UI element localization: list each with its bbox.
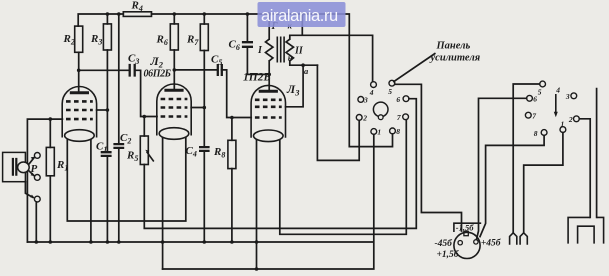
input jack 1 xyxy=(34,153,40,159)
panel pin 2 xyxy=(356,115,362,121)
svg-text:7: 7 xyxy=(397,113,401,122)
svg-text:R8: R8 xyxy=(213,146,225,160)
battery connector foot B xyxy=(520,233,527,245)
resistor R8 xyxy=(228,140,236,168)
capacitor C2 xyxy=(113,144,124,148)
wire pickup lower lead with plug arrow xyxy=(25,182,33,198)
svg-text:R5: R5 xyxy=(126,150,138,164)
plug pin 4 arrow xyxy=(555,94,557,112)
battery plug tab xyxy=(454,223,481,232)
wire tube1 left leg to tube2 right leg filament link xyxy=(67,136,186,221)
svg-text:1: 1 xyxy=(561,120,565,129)
svg-text:C1: C1 xyxy=(96,141,107,155)
svg-text:Панель: Панель xyxy=(436,41,471,52)
svg-text:2: 2 xyxy=(568,115,573,124)
resistor R6 xyxy=(170,24,178,50)
wire pin 5 to battery minus 1.5V xyxy=(395,84,462,231)
pickup piezo element xyxy=(13,158,16,176)
svg-text:8: 8 xyxy=(396,127,400,136)
wire R7 C4 screen column xyxy=(191,14,204,242)
wire tube3 left leg xyxy=(256,138,258,269)
pickup oval xyxy=(18,162,30,173)
svg-text:4: 4 xyxy=(369,88,374,97)
svg-text:Л3: Л3 xyxy=(286,82,300,98)
svg-text:+45б: +45б xyxy=(481,237,502,248)
capacitor C4 xyxy=(199,147,210,151)
svg-text:C5: C5 xyxy=(211,54,222,68)
wire C6 feedback column xyxy=(247,14,269,74)
panel pin 1 xyxy=(371,129,377,135)
tube L2 grids xyxy=(161,99,188,117)
capacitor C6 xyxy=(242,42,253,47)
svg-text:C2: C2 xyxy=(120,132,131,146)
svg-text:н: н xyxy=(288,53,293,63)
input jack 3 xyxy=(34,196,40,202)
svg-text:5: 5 xyxy=(388,87,392,96)
node dot R1 grid xyxy=(49,117,53,121)
wire tube2 left leg xyxy=(162,136,164,269)
wire tube1 grid circuit and R1 leads xyxy=(27,119,62,242)
wire pin 1 drop with bottom ground bus and lower return bus xyxy=(27,134,373,269)
plug pin 6 xyxy=(527,95,533,101)
svg-text:R7: R7 xyxy=(186,34,199,48)
svg-text:C6: C6 xyxy=(229,39,240,53)
tube L3 grids xyxy=(255,100,282,118)
wire tube3 right leg to pin 7 xyxy=(280,120,407,235)
wire right plug pin 1 to battery connector foot B xyxy=(524,133,563,233)
svg-text:1: 1 xyxy=(377,128,381,137)
node dots on top bus xyxy=(106,12,110,16)
watermark box xyxy=(258,2,346,27)
plug pin 1 xyxy=(560,127,566,133)
svg-text:C3: C3 xyxy=(128,53,139,67)
node dot R8 grid3 xyxy=(230,116,234,120)
wire C3 to tube2 grid xyxy=(135,70,157,116)
wire transformer secondary top to pin 4 xyxy=(290,14,373,82)
tube L3 envelope xyxy=(251,85,285,137)
resistor R1 xyxy=(46,147,54,175)
pickup arrow heads xyxy=(30,157,35,198)
tube L1 envelope xyxy=(62,87,96,138)
tube L2 anode xyxy=(164,89,183,92)
wire right plug pin 5 to battery connector foot A xyxy=(513,84,540,232)
plug pin 2 xyxy=(574,116,580,122)
tube L1 anode xyxy=(70,91,89,94)
svg-text:-1,5б: -1,5б xyxy=(456,223,474,233)
svg-text:6: 6 xyxy=(533,95,537,104)
svg-text:+1,5б: +1,5б xyxy=(437,249,460,260)
wire C5 to tube3 grid and R8 leads xyxy=(222,70,252,242)
svg-text:4: 4 xyxy=(555,85,560,94)
wire R5 bottom to pin 6 feedback line xyxy=(144,99,416,229)
battery plug minus 45 pin xyxy=(458,241,462,245)
node dot R5 grid2 xyxy=(143,115,147,119)
battery connector foot A xyxy=(510,233,517,245)
tube L3 anode xyxy=(259,90,278,93)
wire transformer primary leads and tube3 anode xyxy=(268,14,270,91)
potentiometer R5 xyxy=(140,136,148,165)
tube L1 cathode ellipse xyxy=(65,130,95,142)
svg-text:3: 3 xyxy=(363,96,368,105)
wire pickup plug arrow to jack 2 xyxy=(29,171,34,176)
tube L3 cathode ellipse xyxy=(253,130,283,142)
svg-text:3: 3 xyxy=(565,92,570,101)
wire pointer line from panel label to pin 5 xyxy=(394,54,435,82)
tube L2 cathode ellipse xyxy=(159,128,189,140)
svg-text:Л2: Л2 xyxy=(150,54,164,70)
wire right plug pin 6 to battery plus 45V xyxy=(477,98,527,239)
wire right plug pin 8 to battery connector xyxy=(480,135,544,236)
wire node a to pin 2 xyxy=(317,65,359,160)
resistor R4 xyxy=(123,12,151,17)
svg-text:а: а xyxy=(304,66,309,76)
svg-text:R2: R2 xyxy=(63,33,75,47)
svg-text:1П2Б: 1П2Б xyxy=(243,72,271,84)
node dot tube1 screen xyxy=(106,108,110,112)
capacitor C3 xyxy=(130,64,135,77)
svg-text:Р: Р xyxy=(31,163,38,175)
panel pin 6 xyxy=(403,96,409,102)
svg-text:I: I xyxy=(257,45,263,56)
node dot tube2 screen xyxy=(203,106,207,110)
resistor R3 xyxy=(103,24,111,50)
svg-text:06П2Б: 06П2Б xyxy=(144,69,172,80)
panel socket keyway xyxy=(378,115,383,120)
wire R5 top lead xyxy=(143,117,145,137)
svg-text:II: II xyxy=(294,46,304,57)
wire R2 anode column xyxy=(78,52,80,92)
panel pin 3 xyxy=(358,97,364,103)
node dot C6 anode3 xyxy=(267,73,271,77)
wire R6 column and tube2 anode to C5 xyxy=(174,14,217,90)
battery plug key pin xyxy=(464,231,468,235)
wire right plug pin 2 to headphone fork xyxy=(579,119,590,218)
resistor R2 xyxy=(75,26,83,52)
transformer primary winding I xyxy=(266,39,273,61)
svg-text:R3: R3 xyxy=(90,33,102,47)
svg-text:2: 2 xyxy=(362,114,367,123)
plug pin 7 xyxy=(525,112,531,118)
wire R3 screen column xyxy=(106,14,108,242)
wire pickup plug arrow to jack 1 xyxy=(29,158,34,164)
capacitor C5 xyxy=(218,64,222,76)
svg-text:5: 5 xyxy=(538,87,542,96)
headphone fork xyxy=(568,217,604,243)
svg-text:-45б: -45б xyxy=(435,238,454,249)
svg-text:усилителя: усилителя xyxy=(429,53,481,64)
svg-text:airalania.ru: airalania.ru xyxy=(261,7,338,25)
node dots on ground bus xyxy=(35,240,39,244)
resistor R7 xyxy=(200,24,208,51)
panel pin 7 xyxy=(403,114,409,120)
node dot lower return bus xyxy=(255,267,259,271)
node dot tube1 anode xyxy=(77,69,81,73)
wire tube1 screen lead xyxy=(97,109,108,111)
panel pin 4 xyxy=(371,82,377,88)
capacitor C1 xyxy=(101,152,112,156)
panel pin 8 xyxy=(390,128,396,134)
wire tube1 right leg xyxy=(90,138,92,242)
svg-text:R4: R4 xyxy=(131,0,143,13)
svg-text:C4: C4 xyxy=(186,145,197,159)
pickup P box xyxy=(3,152,26,181)
input jack 2 xyxy=(34,175,40,181)
plug pin 5 xyxy=(540,81,546,87)
wire C2 decoupling column xyxy=(118,14,120,242)
tube L2 envelope xyxy=(157,84,191,136)
plug pin 8 xyxy=(541,130,547,136)
svg-text:8: 8 xyxy=(534,129,538,138)
plug pin 3 xyxy=(571,93,577,99)
wire top supply bus right segment with drop to pin 8 of panel xyxy=(152,14,393,147)
potentiometer R5 wiper arrow xyxy=(147,152,154,162)
wire transformer secondary bottom node a xyxy=(286,61,318,107)
wire top supply bus left segment xyxy=(78,14,123,26)
battery plug circle xyxy=(454,232,480,258)
transformer core xyxy=(277,37,284,63)
wire headphone fork second lead xyxy=(596,89,598,218)
tube L1 grids xyxy=(66,101,93,119)
transformer secondary winding II xyxy=(286,39,293,61)
svg-text:R6: R6 xyxy=(156,34,168,48)
wire input jack 3 lead xyxy=(35,202,37,242)
battery plug plus 45 pin xyxy=(474,240,478,244)
panel socket center hole xyxy=(373,102,388,117)
svg-text:6: 6 xyxy=(396,95,400,104)
wire anode to C3 xyxy=(79,69,130,71)
node dot secondary bottom xyxy=(301,63,305,67)
panel pin 5 xyxy=(389,80,395,86)
node dot tube2 anode xyxy=(173,68,177,72)
svg-text:7: 7 xyxy=(532,111,536,120)
